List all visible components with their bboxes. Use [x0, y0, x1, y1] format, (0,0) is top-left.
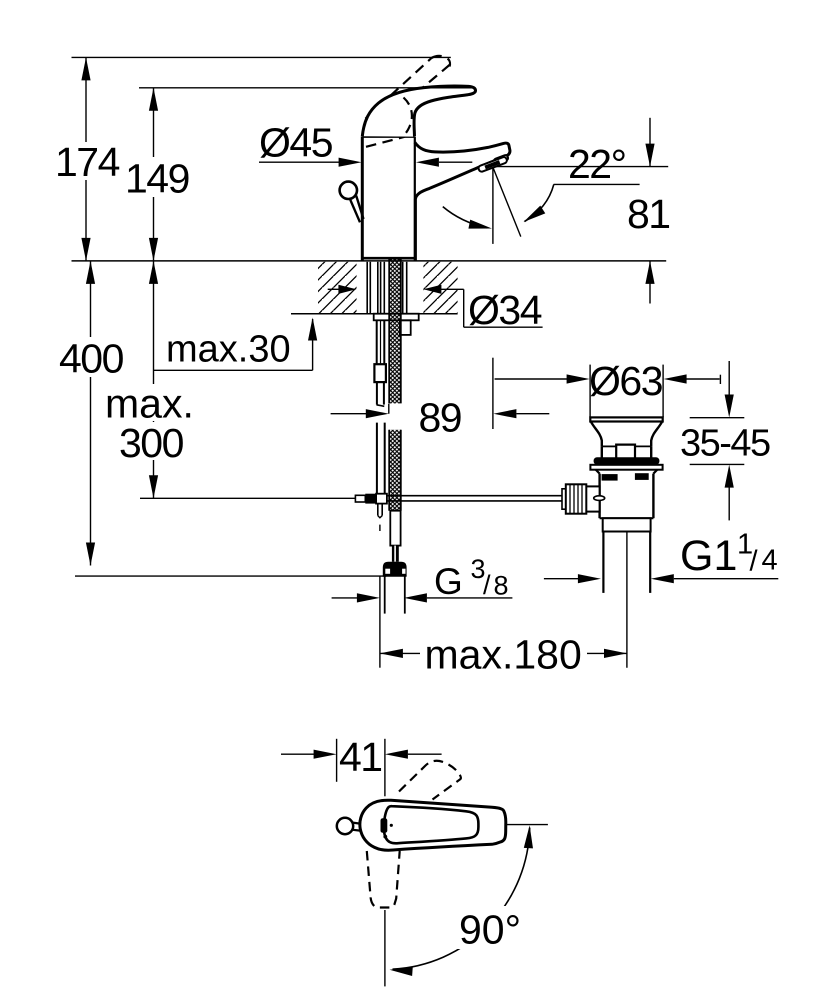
svg-text:300: 300	[119, 420, 184, 466]
svg-text:22°: 22°	[568, 141, 626, 187]
svg-text:/: /	[483, 570, 491, 600]
svg-text:G: G	[434, 561, 463, 602]
svg-text:174: 174	[55, 139, 120, 185]
svg-text:Ø34: Ø34	[468, 287, 542, 333]
svg-text:/: /	[750, 546, 759, 578]
svg-text:Ø45: Ø45	[259, 120, 333, 166]
svg-text:41: 41	[339, 734, 382, 780]
svg-text:89: 89	[419, 395, 462, 441]
svg-text:Ø63: Ø63	[589, 358, 662, 404]
svg-text:149: 149	[125, 156, 189, 202]
svg-text:81: 81	[627, 191, 670, 237]
svg-text:8: 8	[494, 571, 509, 601]
svg-text:35-45: 35-45	[680, 423, 770, 465]
svg-text:max.30: max.30	[166, 329, 291, 371]
svg-text:G1: G1	[680, 532, 737, 580]
svg-text:max.180: max.180	[425, 632, 582, 678]
svg-text:400: 400	[59, 336, 124, 382]
svg-text:90°: 90°	[459, 907, 521, 953]
svg-text:4: 4	[762, 545, 778, 577]
